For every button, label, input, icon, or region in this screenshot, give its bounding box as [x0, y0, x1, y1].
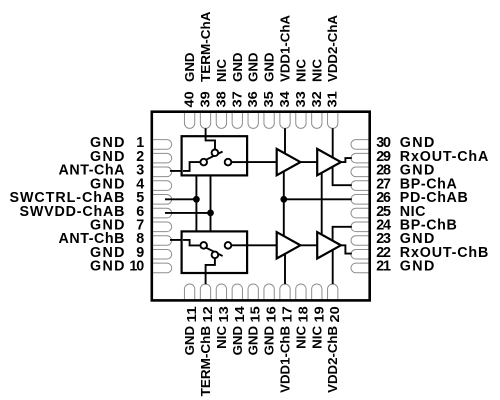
- svg-text:VDD2-ChB: VDD2-ChB: [325, 326, 340, 393]
- svg-text:GND: GND: [262, 326, 277, 356]
- svg-text:37: 37: [229, 91, 244, 107]
- svg-text:16: 16: [264, 306, 279, 322]
- svg-text:12: 12: [200, 306, 215, 322]
- svg-text:17: 17: [279, 306, 294, 322]
- svg-text:GND: GND: [230, 53, 245, 83]
- svg-text:34: 34: [277, 90, 292, 107]
- svg-text:GND: GND: [262, 53, 277, 83]
- svg-text:13: 13: [216, 306, 231, 322]
- svg-text:10: 10: [129, 259, 144, 275]
- svg-text:36: 36: [245, 91, 260, 107]
- svg-text:VDD2-ChA: VDD2-ChA: [325, 14, 340, 82]
- svg-text:GND: GND: [90, 259, 125, 275]
- svg-text:GND: GND: [182, 326, 197, 356]
- svg-text:14: 14: [232, 305, 247, 322]
- svg-text:NIC: NIC: [293, 325, 308, 349]
- svg-text:15: 15: [248, 306, 263, 322]
- svg-text:38: 38: [213, 91, 228, 107]
- svg-text:NIC: NIC: [309, 58, 324, 82]
- svg-text:NIC: NIC: [214, 325, 229, 349]
- svg-text:11: 11: [184, 306, 199, 322]
- svg-text:GND: GND: [230, 326, 245, 356]
- svg-text:VDD1-ChA: VDD1-ChA: [277, 14, 292, 82]
- svg-text:40: 40: [182, 91, 197, 107]
- svg-text:GND: GND: [246, 53, 261, 83]
- svg-text:GND: GND: [182, 53, 197, 83]
- svg-text:NIC: NIC: [309, 325, 324, 349]
- svg-text:TERM-ChB: TERM-ChB: [198, 326, 213, 397]
- svg-text:21: 21: [376, 259, 391, 275]
- svg-text:VDD1-ChB: VDD1-ChB: [277, 326, 292, 393]
- svg-text:19: 19: [311, 306, 326, 322]
- svg-text:32: 32: [309, 91, 324, 107]
- svg-text:18: 18: [295, 306, 310, 322]
- svg-text:GND: GND: [246, 326, 261, 356]
- svg-text:NIC: NIC: [293, 58, 308, 82]
- svg-text:GND: GND: [400, 259, 435, 275]
- svg-text:39: 39: [197, 91, 212, 107]
- svg-text:35: 35: [261, 91, 276, 107]
- svg-text:20: 20: [327, 306, 342, 322]
- svg-text:31: 31: [325, 91, 340, 107]
- svg-text:TERM-ChA: TERM-ChA: [198, 11, 213, 82]
- svg-text:NIC: NIC: [214, 58, 229, 82]
- svg-text:33: 33: [293, 91, 308, 107]
